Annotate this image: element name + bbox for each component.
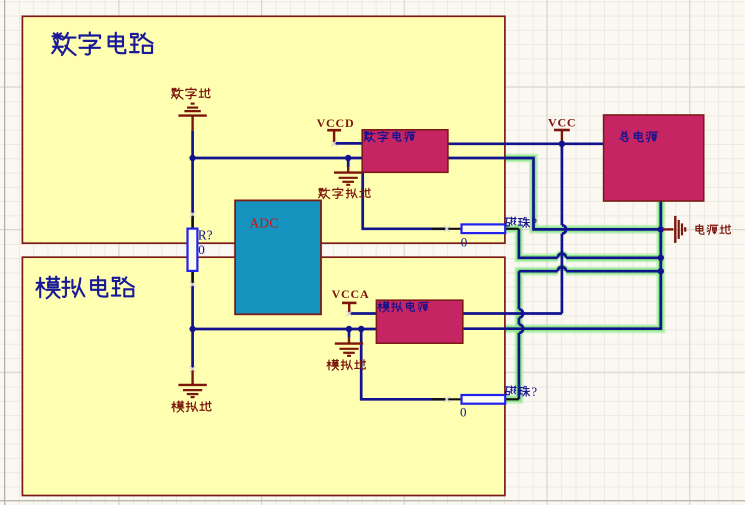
wire hop glow at 561.9,257.8 bbox=[558, 254, 566, 258]
power module U_digital 数字电源 bbox=[362, 130, 448, 173]
junction at digital gnd bus left bbox=[189, 155, 195, 161]
sheet edge bbox=[4, 0, 6, 505]
label 数字地 bbox=[172, 88, 211, 99]
label 模拟地 near VCCA bbox=[327, 360, 365, 371]
ferrite bead L1 body bbox=[462, 224, 506, 233]
wire left vertical through R1 bbox=[191, 131, 194, 329]
resistor R1 body bbox=[188, 229, 198, 271]
ferrite bead L2 pins bbox=[432, 398, 462, 400]
label 数字电源 bbox=[364, 131, 415, 142]
wire hop vert at (561.9,229.4) bbox=[562, 225, 566, 233]
ground 模拟地 symbol (near VCCA) bbox=[348, 338, 350, 344]
wire net bead2 out highlight bbox=[505, 271, 558, 399]
label 电源地 bbox=[696, 224, 731, 234]
svg-text:ADC: ADC bbox=[250, 215, 279, 230]
title 模拟电路 bbox=[36, 277, 133, 299]
wire hop horiz at (561.9,271.2) bbox=[558, 267, 566, 271]
power module U_analog 模拟电源 bbox=[376, 300, 462, 343]
pin end mark L1 bbox=[444, 226, 450, 232]
wire hop glow at 561.9,271.2 bbox=[558, 267, 566, 271]
wire analog ground bus bbox=[193, 328, 377, 331]
junction bead2 net bbox=[658, 268, 664, 274]
wire net VCC5V0 core bbox=[448, 158, 661, 229]
svg-text:?: ? bbox=[531, 385, 537, 399]
junction bead1 net bbox=[658, 255, 664, 261]
label 数字拟地 bbox=[319, 188, 371, 199]
label 模拟电源 bbox=[378, 302, 428, 312]
svg-text:VCC: VCC bbox=[548, 115, 576, 129]
svg-text:VCCD: VCCD bbox=[317, 116, 355, 130]
wire 数字电源 to bead1 bbox=[363, 172, 447, 229]
wire VCCA to 模拟电源 bbox=[349, 312, 376, 315]
analog circuit block 模拟电路 bbox=[22, 257, 505, 495]
label L1 designator 磁珠? bbox=[505, 217, 530, 227]
wire net bead1 out highlight bbox=[505, 229, 558, 258]
power port VCCA bbox=[342, 302, 357, 305]
wire VCC bus bbox=[448, 142, 604, 145]
power port VCC bbox=[554, 129, 570, 132]
wire net main power highlight (总电源 to 模拟电源) bbox=[463, 201, 661, 329]
title 数字电路 bbox=[52, 32, 152, 55]
ground 数字地 symbol bbox=[191, 102, 195, 104]
wire stem to 模拟地 bl bbox=[191, 329, 194, 369]
wire hop vert at (518.9,328.7) bbox=[519, 325, 523, 333]
label 总电源 bbox=[620, 131, 657, 142]
junction at 数字拟地 bbox=[345, 155, 351, 161]
ferrite bead L2 body bbox=[462, 395, 506, 404]
power port VCCD bbox=[327, 129, 341, 132]
power module U_main 总电源 bbox=[604, 115, 704, 201]
pin end mark gnd bbox=[190, 366, 196, 372]
digital circuit block 数字电路 bbox=[22, 16, 505, 243]
ground 模拟地 symbol (bottom left) bbox=[191, 369, 193, 385]
wire VCCD to 数字电源 bbox=[334, 142, 362, 145]
svg-text:VCCA: VCCA bbox=[332, 287, 370, 301]
junction at VCC bbox=[559, 141, 565, 147]
wire bead1 out core bbox=[519, 229, 558, 258]
wire 总电源 to 模拟电源 core bbox=[463, 201, 661, 329]
wire VCC down to 模拟电源 (with hop break) bbox=[561, 144, 564, 225]
wire stem to 数字拟地 bbox=[347, 158, 350, 167]
wire digital ground bus bbox=[193, 157, 363, 160]
ground 数字拟地 symbol bbox=[347, 167, 349, 173]
wire net VCC5V0 highlight (数字电源 out to junction) bbox=[448, 158, 661, 229]
svg-text:0: 0 bbox=[198, 242, 205, 257]
junction at 模拟地 bbox=[346, 326, 352, 332]
wire hop vert at (518.9,313.5) bbox=[519, 309, 523, 317]
pin end marks R1 bbox=[190, 212, 196, 218]
junction power gnd bbox=[658, 226, 664, 232]
junction at bead2 feed bbox=[358, 326, 364, 332]
wire stem to 模拟地 2 bbox=[348, 329, 351, 338]
wire bead2 out core (with hop breaks) bbox=[518, 333, 521, 399]
ADC block U_adc bbox=[235, 200, 321, 314]
ferrite bead L1 pins bbox=[432, 228, 462, 230]
svg-text:0: 0 bbox=[460, 405, 467, 420]
resistor R1 pins bbox=[192, 214, 194, 229]
wire hop horiz at (561.9,257.8) bbox=[558, 254, 566, 258]
label 模拟地 bottom left bbox=[172, 401, 211, 412]
pin end mark L2 bbox=[444, 397, 450, 403]
junction at analog gnd bus left bbox=[189, 326, 195, 332]
label L2 designator 磁珠? bbox=[505, 386, 530, 396]
wire 模拟地 bus to bead2 bbox=[361, 329, 447, 399]
svg-text:?: ? bbox=[531, 216, 537, 230]
ground 电源地 symbol bbox=[664, 228, 673, 230]
svg-text:0: 0 bbox=[461, 235, 468, 250]
svg-text:R?: R? bbox=[198, 228, 213, 243]
